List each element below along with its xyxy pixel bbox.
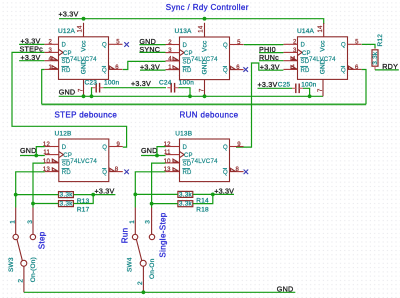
svg-text:3: 3 <box>27 220 34 224</box>
svg-text:2: 2 <box>18 279 25 283</box>
svg-text:Vcc: Vcc <box>201 40 208 52</box>
SW3 pin numbers <box>10 220 34 224</box>
U14A pin14 stub <box>323 23 325 37</box>
flip-flop U13A 74LVC74 <box>166 37 244 80</box>
U14A pin7 stub <box>322 79 324 96</box>
wire U13B pin10 to SW4 pin3 <box>152 163 166 207</box>
svg-text:2: 2 <box>168 40 172 46</box>
junction R17 SW3 pin3 net <box>31 202 35 206</box>
svg-text:Step: Step <box>37 231 46 249</box>
wire U12B pin13 to SW3 pin1 <box>16 172 45 208</box>
flip-flop U12B 74LVC74 <box>45 139 123 182</box>
junction top rail U13A pin14 <box>203 17 207 21</box>
svg-text:14: 14 <box>78 25 84 33</box>
svg-text:1: 1 <box>10 220 17 224</box>
power +3.3V top rail wire <box>59 19 324 24</box>
label +3.3V U13A pin1 <box>140 62 166 71</box>
ground rail wire GND <box>59 95 323 97</box>
svg-text:C25: C25 <box>278 81 291 88</box>
svg-text:Sync / Rdy Controller: Sync / Rdy Controller <box>166 3 249 12</box>
wire U12B pin12 jog to GND <box>36 147 45 156</box>
svg-text:9: 9 <box>117 142 121 148</box>
svg-text:9: 9 <box>237 142 241 148</box>
wire C24 right to GND rail <box>178 88 190 97</box>
wire U13A Q5 to U14A D2 <box>244 44 284 46</box>
svg-text:GND: GND <box>59 88 76 97</box>
U13A pin7 stub <box>204 80 206 97</box>
label RUNc U14A pin4 <box>259 53 283 62</box>
label GND U13A pin2 <box>139 37 165 46</box>
svg-text:RUN debounce: RUN debounce <box>180 110 239 119</box>
junction U12A pin7 on GND rail <box>82 94 86 98</box>
junction top rail U12A pin14 <box>82 17 86 21</box>
wire U14A Q5 to R12 <box>362 44 375 48</box>
net RD-reset rail (U12A pin1 to U14A pin6) <box>42 70 366 105</box>
U12A pin numbers <box>48 25 120 92</box>
junction R14 +3.3V <box>211 193 215 197</box>
wire bottom GND <box>24 291 295 293</box>
svg-text:3.3k: 3.3k <box>372 51 379 65</box>
flip-flop U12A 74LVC74 <box>45 37 123 80</box>
U13B pin numbers <box>164 142 242 173</box>
svg-text:GND: GND <box>201 59 208 74</box>
resistor R12 <box>372 47 378 70</box>
svg-text:+3.3V: +3.3V <box>258 80 278 89</box>
no-connect X U13A pin6 <box>243 67 248 72</box>
svg-text:14: 14 <box>318 25 324 33</box>
capacitor C25 <box>292 84 303 94</box>
svg-text:4: 4 <box>48 57 52 63</box>
label +3.3V C25 <box>258 80 293 89</box>
svg-text:+3.3V: +3.3V <box>214 186 234 195</box>
wire U13B pin13 to SW4 pin1 <box>135 172 165 208</box>
no-connect X U12A pin5 <box>124 42 129 47</box>
svg-text:14: 14 <box>199 25 205 33</box>
svg-text:1: 1 <box>129 220 136 224</box>
svg-text:R12: R12 <box>377 34 384 47</box>
wire STEPc net from U12B pin9 <box>12 52 127 147</box>
svg-text:SW4: SW4 <box>127 257 134 272</box>
svg-text:2: 2 <box>293 40 297 46</box>
junction U13B pin12 GND <box>155 154 159 158</box>
svg-text:8: 8 <box>115 167 119 173</box>
wire R17 left <box>33 203 59 205</box>
junction U13A pin7 GND <box>203 94 207 98</box>
junction R13 SW3 pin1 net <box>14 193 18 197</box>
svg-text:+3.3V: +3.3V <box>131 79 151 88</box>
label +3.3V U14A pin1 with wire from U13B pin9 <box>236 62 283 147</box>
svg-text:Vcc: Vcc <box>319 40 326 52</box>
svg-text:+3.3V: +3.3V <box>95 187 115 196</box>
U13A Vcc GND inner labels <box>201 40 208 74</box>
svg-text:1: 1 <box>292 65 296 71</box>
wire R18 left <box>152 203 178 205</box>
junction R14 SW4 pin1 net <box>133 193 137 197</box>
svg-text:U13B: U13B <box>175 130 192 137</box>
svg-text:4: 4 <box>168 57 172 63</box>
svg-text:On-(On): On-(On) <box>30 257 37 282</box>
wire R13 left <box>16 194 59 196</box>
resistor R14 <box>178 191 193 197</box>
U12A pin7 stub <box>83 79 85 96</box>
label RDY wire <box>375 62 399 71</box>
svg-text:100n: 100n <box>179 80 194 87</box>
svg-text:3: 3 <box>48 48 52 54</box>
label PHI0 U14A pin3 <box>259 45 283 54</box>
capacitor C24 <box>167 83 178 93</box>
wire U12A Q6 to U13A SD4 <box>123 61 166 69</box>
svg-text:GND: GND <box>277 284 294 293</box>
svg-text:2: 2 <box>48 40 52 46</box>
svg-text:R18: R18 <box>196 207 209 214</box>
resistor R17 <box>59 201 74 207</box>
U12B pin numbers <box>43 142 121 173</box>
flip-flop U13B 74LVC74 <box>166 139 244 182</box>
svg-text:GND: GND <box>20 146 37 155</box>
svg-text:GND: GND <box>141 146 158 155</box>
svg-text:3: 3 <box>293 48 297 54</box>
svg-text:U14A: U14A <box>297 28 315 35</box>
svg-text:R17: R17 <box>77 207 90 214</box>
svg-text:On-On: On-On <box>149 258 156 279</box>
svg-text:C24: C24 <box>159 80 172 87</box>
capacitor C23 <box>92 83 103 93</box>
switch SW4 <box>132 208 154 293</box>
svg-text:Run: Run <box>121 228 130 244</box>
junction C24 GND <box>188 94 192 98</box>
svg-text:GND: GND <box>319 59 326 74</box>
wire +3.3V between C23 C24 <box>103 87 166 89</box>
svg-text:1: 1 <box>168 65 172 71</box>
svg-text:GND: GND <box>80 59 87 74</box>
resistor R18 <box>178 201 193 207</box>
svg-text:100n: 100n <box>301 81 316 88</box>
junction U12B pin12 GND <box>34 154 38 158</box>
label GND U12B pin11 <box>20 146 45 155</box>
svg-text:10: 10 <box>43 159 51 165</box>
U12A Vcc GND inner labels <box>80 40 87 74</box>
svg-text:3: 3 <box>145 220 152 224</box>
svg-text:U12B: U12B <box>55 130 72 137</box>
svg-text:4: 4 <box>292 57 296 63</box>
resistor R13 <box>59 192 74 198</box>
wire U13B pin12 jog to GND <box>157 147 166 156</box>
label GND U13B pin11 <box>141 146 166 155</box>
svg-text:5: 5 <box>355 40 359 46</box>
svg-text:3: 3 <box>168 48 172 54</box>
svg-text:3.3k: 3.3k <box>60 192 74 199</box>
wire R13 R17 right to +3.3V <box>73 195 115 204</box>
wire R14 left <box>135 193 178 195</box>
svg-text:100n: 100n <box>104 80 119 87</box>
svg-text:+3.3V: +3.3V <box>59 10 79 19</box>
svg-text:3.3k: 3.3k <box>179 201 193 208</box>
svg-text:5: 5 <box>237 40 241 46</box>
wire R14 R18 right to +3.3V <box>193 194 234 203</box>
no-connect X U13B pin8 <box>244 170 249 175</box>
svg-text:SW3: SW3 <box>8 257 15 272</box>
wire U12B pin10 to SW3 pin3 <box>33 163 45 207</box>
svg-text:U12A: U12A <box>58 28 76 35</box>
SW4 pin numbers <box>129 220 151 224</box>
label +3.3V U12A pin2 <box>19 37 44 46</box>
U12A pin14 stub <box>83 23 85 37</box>
svg-text:6: 6 <box>115 65 119 71</box>
svg-text:3.3k: 3.3k <box>60 200 74 207</box>
flip-flop U14A 74LVC74 <box>284 37 362 80</box>
junction C23 GND <box>90 94 94 98</box>
svg-text:Single-Step: Single-Step <box>159 212 168 257</box>
junction R13 +3.3V <box>91 193 95 197</box>
junction SW4 bottom GND <box>142 290 146 294</box>
svg-text:U13A: U13A <box>175 28 193 35</box>
svg-text:1: 1 <box>48 65 52 71</box>
U14A Vcc GND inner labels <box>319 40 326 74</box>
svg-text:6: 6 <box>236 65 240 71</box>
svg-text:8: 8 <box>236 167 240 173</box>
U13A pin numbers <box>168 25 241 92</box>
svg-text:5: 5 <box>116 40 120 46</box>
svg-text:6: 6 <box>355 65 359 71</box>
svg-text:Vcc: Vcc <box>80 40 87 52</box>
svg-text:2: 2 <box>137 281 144 285</box>
svg-text:STEP debounce: STEP debounce <box>55 110 118 119</box>
label +3.3V U12A pin4 <box>19 53 44 62</box>
svg-text:3.3k: 3.3k <box>179 191 193 198</box>
no-connect X U12B pin8 <box>124 170 129 175</box>
U14A pin numbers <box>292 25 359 92</box>
wire C25 right to GND rail <box>303 88 310 96</box>
wire C23 left to GND rail <box>91 88 94 97</box>
svg-text:10: 10 <box>164 159 172 165</box>
label SYNC U13A pin3 <box>139 45 165 54</box>
U13A pin14 stub <box>204 23 206 37</box>
switch SW3 <box>13 208 36 293</box>
junction C25 GND <box>308 94 312 98</box>
junction R18 SW4 pin3 net <box>150 202 154 206</box>
svg-text:C23: C23 <box>85 80 98 87</box>
